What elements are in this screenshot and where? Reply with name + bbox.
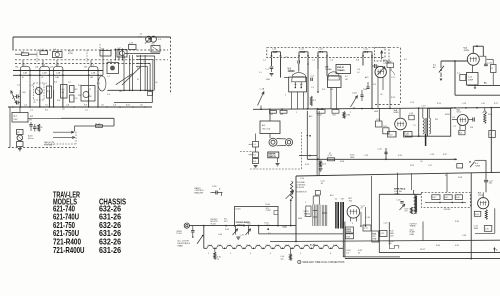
- svg-text:.005: .005: [488, 183, 492, 185]
- svg-text:REAR: REAR: [178, 244, 184, 247]
- svg-text:R-50: R-50: [225, 229, 229, 231]
- svg-text:C-1: C-1: [107, 76, 110, 78]
- left stack box 1: [253, 142, 259, 148]
- svg-text:SPKR: SPKR: [445, 114, 451, 116]
- svg-text:R-16: R-16: [383, 126, 387, 128]
- wire: gang to V-1: [260, 78, 262, 92]
- dashed stub h y=151.5: [240, 151, 253, 153]
- tube V-8 circle bottom right: [478, 198, 489, 209]
- wire: can3 legs down: [317, 58, 319, 70]
- wire: mid link y=53.5: [125, 53, 160, 55]
- wire: y=194.3 link: [379, 193, 421, 195]
- wire: interstage top leads: [312, 196, 314, 205]
- svg-text:B-3: B-3: [253, 161, 256, 163]
- diagonal trimmer: [378, 67, 386, 76]
- wire: x=491.3 long vertical: [490, 108, 492, 173]
- svg-text:470: 470: [405, 211, 408, 213]
- mid rail y=241.4: [270, 240, 500, 241]
- coil box assembly T-2: [81, 86, 95, 102]
- ground left stack: [254, 165, 258, 167]
- wire: V-1 cathode lead right: [29, 90, 31, 107]
- svg-text:R-14: R-14: [437, 103, 441, 105]
- dark cable mark: [425, 134, 427, 146]
- svg-text:30MF: 30MF: [474, 228, 478, 230]
- svg-text:OSC COIL: OSC COIL: [262, 129, 271, 131]
- svg-text:R-9: R-9: [97, 83, 100, 85]
- svg-text:A: A: [219, 187, 221, 190]
- hook resistor bottom: [389, 245, 399, 249]
- svg-text:IF: IF: [22, 77, 25, 79]
- resistor R-14 lozenge: [96, 125, 103, 128]
- svg-text:1U4: 1U4: [35, 67, 38, 69]
- svg-text:R-10: R-10: [388, 61, 392, 63]
- svg-text:L-18: L-18: [481, 103, 485, 105]
- capacitor x=362: [360, 94, 363, 96]
- svg-text:A-2: A-2: [459, 132, 462, 135]
- board resistor 2: [444, 195, 452, 200]
- ground below pots: [236, 236, 240, 238]
- svg-text:TONE: TONE: [475, 166, 481, 168]
- svg-text:C-2: C-2: [17, 85, 20, 87]
- svg-text:C-1: C-1: [266, 69, 270, 71]
- capacitor right of V-6: [472, 117, 474, 121]
- svg-text:A-3: A-3: [262, 124, 266, 127]
- svg-text:3V4: 3V4: [349, 200, 353, 202]
- component box C-4: [61, 85, 68, 99]
- svg-text:TRANS: TRANS: [410, 225, 417, 228]
- svg-text:1-4B: 1-4B: [56, 73, 61, 75]
- svg-text:W SWITCH: W SWITCH: [297, 192, 307, 194]
- dashed tick 2: [86, 50, 88, 64]
- svg-text:1-4B: 1-4B: [91, 73, 96, 75]
- resistor below V-4 left: [388, 132, 397, 138]
- wire: can4 legs down: [362, 58, 364, 66]
- resistor box mid: [129, 45, 137, 50]
- svg-text:R-5: R-5: [45, 110, 48, 112]
- resistor to ground x=320.5: [319, 161, 321, 168]
- resistor below V-8: [485, 210, 487, 220]
- svg-text:C-4: C-4: [312, 60, 315, 62]
- resistor lozenge B: [280, 110, 287, 113]
- svg-text:50C5: 50C5: [457, 112, 463, 114]
- svg-text:PLUG: PLUG: [177, 233, 183, 235]
- switch lever: [197, 236, 203, 244]
- svg-text:C-14: C-14: [318, 115, 322, 117]
- svg-text:C-36: C-36: [462, 235, 466, 237]
- wire: V-3 cathode lead left: [53, 90, 55, 107]
- svg-text:TRANS: TRANS: [337, 69, 345, 72]
- svg-text:.05: .05: [33, 102, 36, 104]
- dashed border right x=400.5: [400, 48, 402, 105]
- coil L-8 with circle: [53, 52, 63, 58]
- capacitor C-24: [484, 179, 488, 181]
- svg-text:B1: B1: [17, 132, 19, 134]
- wire: y=233.3 link: [475, 232, 495, 234]
- svg-text:50B5: 50B5: [394, 112, 400, 114]
- dashed border bottom y=104.5: [375, 104, 401, 106]
- filament junction dots: [214, 247, 216, 249]
- svg-text:220K: 220K: [363, 89, 368, 91]
- wire: T-3 top lead: [413, 190, 415, 195]
- coil box L-9: [117, 50, 127, 58]
- dashed border v x=301.5: [301, 132, 303, 169]
- wire: feed to board x=447: [446, 173, 448, 192]
- svg-text:22K: 22K: [470, 127, 474, 129]
- svg-text:.05: .05: [380, 94, 383, 96]
- svg-text:C-32: C-32: [381, 233, 385, 235]
- svg-text:12BA6: 12BA6: [325, 68, 332, 71]
- svg-text:47: 47: [361, 208, 363, 210]
- svg-text:3: 3: [285, 95, 286, 97]
- dashed IF-strip box: [267, 48, 385, 58]
- svg-text:R: R: [491, 68, 493, 70]
- svg-text:OSC: OSC: [14, 119, 19, 121]
- wire: coil link top: [277, 138, 286, 140]
- svg-text:B-18: B-18: [28, 136, 33, 138]
- wire: T-1 top leads: [422, 108, 424, 118]
- tube ellipse V-4b: [98, 76, 106, 91]
- capacitor C-22 on line: [327, 158, 334, 161]
- wire: filament rail end: [339, 247, 344, 249]
- wire: bottom rail y=103.5: [114, 102, 152, 104]
- wire: x=379.3 vertical: [378, 194, 380, 252]
- ground below C-1: [270, 73, 274, 75]
- tuning capacitor C-1A: [16, 95, 18, 99]
- wire: vertical x=397.5: [397, 173, 399, 195]
- wire: board bottom bus: [425, 201, 466, 203]
- svg-text:C-35: C-35: [485, 228, 489, 230]
- svg-text:IF-2: IF-2: [364, 51, 369, 54]
- svg-text:GRN: GRN: [374, 111, 379, 113]
- pot below bus 1: [235, 226, 237, 235]
- wire: V-1 cathode lead left: [19, 90, 21, 107]
- wire: x=471.2 long vertical: [470, 173, 472, 259]
- wires: L-12 feeders: [115, 49, 117, 61]
- tube V-3 12AV6 circle: [375, 66, 386, 77]
- svg-text:.02: .02: [321, 183, 324, 185]
- svg-text:C-8: C-8: [66, 104, 69, 106]
- svg-text:470K: 470K: [340, 161, 345, 163]
- wire: stub x=354: [353, 107, 355, 109]
- wire: top cap corner down: [482, 46, 484, 56]
- switch S-1 on line cord: [440, 61, 442, 68]
- phono switch box: [235, 207, 279, 226]
- svg-text:OHM: OHM: [373, 239, 377, 241]
- board junction dots: [439, 202, 441, 204]
- wire: left schematic top border: [13, 36, 171, 38]
- svg-text:C-23: C-23: [378, 149, 382, 151]
- svg-text:100K: 100K: [350, 157, 355, 159]
- wire: stub x=379.3: [378, 109, 380, 121]
- tube V-1 12BE6 converter bell: [292, 73, 306, 82]
- svg-text:S-2: S-2: [122, 57, 125, 59]
- svg-text:BRACKET: BRACKET: [195, 192, 205, 195]
- svg-text:.01: .01: [45, 104, 48, 106]
- highlight box 2ND IF: [336, 65, 351, 74]
- pilot lamp circle: [17, 135, 23, 141]
- wire: A-1 left lead: [9, 107, 11, 148]
- svg-text:47K: 47K: [57, 100, 61, 102]
- resistor lozenge A: [270, 110, 277, 113]
- component boxes x375-390: [376, 121, 383, 127]
- tube V-2 envelope (left schematic): [40, 67, 50, 90]
- tube V-5 35W4 rectifier circle: [467, 53, 479, 65]
- capacitor C-11: [33, 126, 36, 128]
- arrow lead 1: [53, 131, 74, 133]
- svg-text:.05: .05: [61, 92, 65, 94]
- wire: V-4 cathode lead left: [88, 90, 90, 107]
- capacitor C-10: [29, 124, 32, 126]
- svg-text:1 MEG: 1 MEG: [265, 225, 271, 227]
- label boxes power section: [346, 227, 354, 233]
- svg-text:C-5: C-5: [311, 87, 314, 89]
- svg-text:T-1: T-1: [335, 198, 338, 200]
- svg-text:5: 5: [300, 253, 301, 255]
- svg-text:B+: B+: [137, 56, 139, 58]
- svg-text:R-7: R-7: [78, 85, 81, 87]
- svg-text:R-12: R-12: [391, 97, 395, 99]
- wire: jack bus y=225.6: [189, 225, 296, 227]
- svg-text:5Y3: 5Y3: [224, 221, 227, 223]
- svg-text:33: 33: [358, 252, 360, 254]
- wire: x=418.7 down: [418, 108, 420, 136]
- component below V-8 left: [474, 211, 481, 216]
- svg-text:DET: DET: [55, 77, 60, 79]
- tube V-4 envelope (left schematic): [89, 67, 98, 90]
- wire: line to cap corner: [463, 165, 470, 167]
- svg-text:B+: B+: [484, 83, 488, 85]
- tube V-2 socket box: [328, 76, 342, 88]
- svg-text:47: 47: [137, 79, 139, 81]
- svg-text:GRN: GRN: [298, 218, 303, 220]
- svg-text:R-40: R-40: [266, 204, 271, 206]
- component below filament x=290.5: [290, 248, 292, 253]
- wire: A-1 to bus: [19, 107, 21, 113]
- wire: V-4 grid stub: [399, 109, 401, 118]
- svg-text:470K: 470K: [68, 53, 73, 55]
- loop antenna dashed box: [375, 48, 390, 61]
- wire: pot top stub: [484, 108, 486, 111]
- wire: can2 legs down: [298, 58, 300, 61]
- wire: V-6 left lead: [452, 119, 457, 121]
- svg-text:2: 2: [230, 253, 231, 255]
- svg-text:R-19: R-19: [388, 134, 392, 136]
- svg-text:T2: T2: [89, 89, 92, 91]
- svg-text:R-46: R-46: [436, 245, 440, 247]
- svg-text:R-45: R-45: [455, 221, 459, 223]
- svg-text:C-26: C-26: [430, 154, 434, 156]
- svg-text:S-40: S-40: [283, 226, 287, 229]
- dashed stub x=76: [75, 132, 77, 145]
- svg-text:AF: AF: [90, 76, 93, 79]
- svg-text:S-401: S-401: [236, 208, 241, 210]
- antenna symbol: [11, 91, 17, 105]
- wire: bottom rail y=90.5: [125, 89, 153, 91]
- wire: speaker bottom rail y=136.2: [405, 135, 428, 137]
- svg-text:OSC: OSC: [22, 92, 27, 94]
- wire: rail y=90.5 extension: [107, 89, 125, 91]
- svg-text:R-21: R-21: [322, 164, 326, 166]
- wire: can1 right leg down: [280, 58, 282, 78]
- left stack box 2: [253, 152, 259, 158]
- pot below bus 2: [248, 226, 250, 235]
- nested corner wires: [136, 55, 155, 57]
- wire: R-22 leads: [487, 58, 494, 60]
- wire: rect bottom to filter: [472, 65, 474, 72]
- resistor board dashed box: [421, 192, 470, 207]
- svg-text:T-2: T-2: [304, 216, 307, 218]
- component box on bus C: [317, 110, 325, 114]
- wire: x=494.8 vertical: [494, 208, 496, 233]
- component left of interstage: [306, 206, 311, 217]
- svg-text:R: R: [41, 127, 43, 129]
- tube V-1 socket box: [289, 77, 307, 92]
- cap on wire C-18: [409, 115, 414, 120]
- resistor R-37: [410, 207, 412, 214]
- svg-text:BLU: BLU: [330, 195, 334, 197]
- filament heater humps: [207, 245, 339, 248]
- resistor R-22 box: [491, 65, 497, 73]
- svg-text:C-29: C-29: [240, 234, 244, 236]
- wire: link y=126: [75, 125, 115, 127]
- wire: control line y=159.3: [307, 158, 457, 160]
- svg-text:C-13: C-13: [129, 43, 133, 45]
- svg-text:1M: 1M: [119, 91, 122, 93]
- ground box corner: [148, 92, 153, 96]
- svg-text:R-9: R-9: [84, 104, 87, 106]
- svg-text:2: 2: [350, 112, 351, 114]
- svg-text:S-3: S-3: [152, 44, 155, 46]
- svg-text:R-7: R-7: [345, 76, 348, 78]
- svg-text:.05: .05: [420, 161, 423, 163]
- svg-text:C: C: [28, 122, 30, 124]
- svg-text:C-6: C-6: [330, 60, 333, 62]
- tube V-7 pins: [350, 218, 352, 222]
- svg-text:3: 3: [250, 253, 251, 255]
- wire: V-2 cathode lead left: [39, 90, 41, 107]
- tuning gang arrow left: [258, 92, 265, 106]
- wire: stub x=386 up: [385, 148, 387, 159]
- interstage rungs: [313, 210, 318, 212]
- svg-text:AVC: AVC: [365, 76, 369, 79]
- wires: V-2 socket pins down: [330, 88, 332, 109]
- svg-text:CONT: CONT: [266, 210, 272, 212]
- svg-text:.02: .02: [62, 109, 65, 111]
- svg-text:B+3V: B+3V: [310, 245, 316, 247]
- svg-text:2ND IF: 2ND IF: [337, 67, 345, 69]
- tube V-4 pin leads: [395, 131, 397, 137]
- component below V-6: [459, 130, 465, 135]
- svg-text:C-27: C-27: [428, 165, 432, 167]
- tube V-6 pin leads: [459, 125, 461, 130]
- left stack box 3: [253, 159, 259, 164]
- dot below label: [267, 228, 269, 230]
- tube V-1 heater pins: [294, 82, 296, 87]
- wire: vertical x=124: [123, 55, 125, 90]
- resistor below filament x=214.8: [214, 248, 216, 252]
- svg-text:R-6: R-6: [54, 82, 57, 84]
- double vertical x=317.1: [316, 111, 318, 176]
- svg-text:ANT: ANT: [273, 51, 278, 54]
- svg-text:.05: .05: [155, 82, 158, 84]
- dashed link y=144: [45, 143, 76, 145]
- wire: rectifier input y=61: [441, 60, 467, 62]
- svg-text:C-5: C-5: [30, 110, 33, 112]
- wire: V-3 cathode lead right: [62, 90, 64, 107]
- tube V-2 12BA6 bell: [328, 72, 340, 80]
- svg-text:L-1: L-1: [259, 72, 262, 74]
- bottom rail A y=252.6: [379, 252, 500, 254]
- svg-text:S-2: S-2: [404, 59, 407, 61]
- capacitor C-7: [374, 64, 376, 68]
- resistor R-1 in dashed band: [22, 53, 29, 56]
- wire: corner x=152.3: [151, 90, 153, 102]
- phono jack J-2: [184, 223, 189, 228]
- svg-text:6.3: 6.3: [347, 252, 349, 254]
- wire: V-2 cathode lead right: [48, 90, 50, 107]
- svg-text:FIELD: FIELD: [346, 231, 352, 233]
- svg-text:R-20: R-20: [305, 164, 309, 166]
- wire: x=389.3 vertical: [388, 222, 390, 245]
- svg-text:GND: GND: [266, 79, 271, 81]
- oscillator coil dashed box: [34, 83, 45, 100]
- tick wires band-to-tubes: [22, 60, 24, 66]
- bus line A y=70.5: [13, 70, 103, 72]
- svg-text:PILOT: PILOT: [420, 249, 426, 251]
- wire: socket bottom: [289, 91, 307, 93]
- svg-text:C-13: C-13: [410, 102, 414, 104]
- svg-text:C-18: C-18: [409, 113, 413, 115]
- svg-text:1: 1: [296, 112, 297, 114]
- svg-text:C-9: C-9: [452, 117, 455, 119]
- vertical resistor below bus: [343, 112, 345, 119]
- wire: socket left lead: [284, 77, 289, 79]
- wire: dashed band row 3: [15, 63, 150, 65]
- bus line B y=75.3: [13, 74, 103, 76]
- bottom rail C y=258.6: [345, 258, 500, 260]
- pot with arrow: [400, 204, 406, 210]
- svg-text:R-9: R-9: [373, 84, 376, 86]
- svg-text:1M: 1M: [89, 96, 92, 98]
- oscillator coil circle: [35, 88, 42, 95]
- svg-text:C-25: C-25: [384, 222, 388, 224]
- wire: rail y=95.2: [455, 94, 500, 96]
- resistor R-2 in dashed band: [40, 51, 48, 55]
- svg-text:R-24: R-24: [398, 155, 402, 157]
- capacitor C-28: [211, 192, 216, 194]
- svg-text:OUT: OUT: [341, 198, 346, 200]
- svg-text:B-: B-: [496, 250, 498, 252]
- svg-text:S-5: S-5: [268, 233, 271, 235]
- svg-text:SWITCH: SWITCH: [237, 225, 245, 227]
- resistor box R-3: [47, 86, 52, 98]
- dashed right border x=170.5: [170, 37, 172, 94]
- grid cap component: [297, 60, 299, 63]
- dark label box wafer: [268, 152, 279, 158]
- svg-text:C-2: C-2: [253, 144, 256, 146]
- amplifier box right edge double: [342, 222, 344, 257]
- svg-text:C-7: C-7: [68, 82, 71, 84]
- svg-text:PM: PM: [435, 119, 438, 121]
- ground wafer right: [277, 158, 279, 163]
- curve hook: [390, 70, 395, 75]
- svg-text:C-16: C-16: [462, 103, 466, 105]
- wire: gang stub: [260, 106, 262, 110]
- tube V-6 50C5 circle: [457, 115, 468, 126]
- svg-text:1: 1: [299, 262, 300, 264]
- svg-text:WIRE AND TUBE PLUG CONNECTORS: WIRE AND TUBE PLUG CONNECTORS: [303, 261, 345, 264]
- svg-text:1M: 1M: [345, 79, 348, 81]
